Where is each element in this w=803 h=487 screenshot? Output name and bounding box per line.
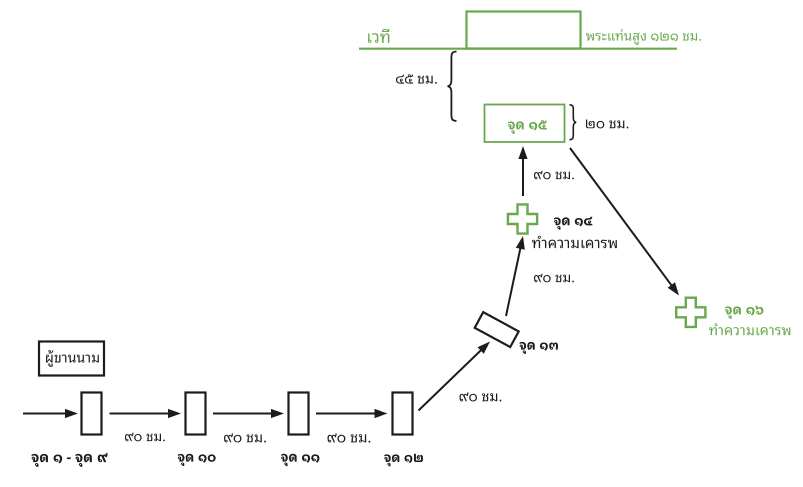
arrow box1 to box2: [110, 409, 182, 418]
caller name box: [39, 342, 104, 376]
stage line (weathee): [359, 48, 677, 50]
podium rectangle: [467, 12, 581, 49]
point box 2: [186, 393, 206, 435]
arrow plus14 to box15: [518, 146, 527, 196]
tilted rectangle jud 13: [475, 312, 519, 347]
label ๒๐ ชม.: [586, 119, 628, 128]
label พระแท่นสูง ๑๒๑ ชม.: [586, 29, 701, 45]
label 90 cm #4: [125, 433, 165, 442]
small right brace 20 cm: [570, 105, 577, 140]
label จุด ๑๔: [554, 217, 592, 230]
point box 1: [82, 393, 102, 435]
label 90 cm #2: [534, 274, 574, 283]
label 90 cm #3: [459, 392, 501, 401]
label 90 cm #5: [224, 433, 266, 442]
label จุด ๑๒: [384, 454, 423, 467]
box jud 15: [485, 105, 565, 143]
label tham khwam khaorop #1: [532, 236, 617, 248]
label จุด ๑๖: [725, 306, 763, 319]
label เวที: [368, 29, 389, 43]
label จุด ๑๐: [178, 454, 216, 466]
arrow box2 to box3: [213, 409, 284, 418]
big left brace 45 cm: [448, 52, 457, 122]
arrow box3 to box4: [316, 409, 388, 418]
label จุด ๑๓: [520, 342, 558, 354]
label tham khwam khaorop #2: [709, 323, 790, 335]
green cross jud 14: [508, 204, 537, 233]
point box 4: [393, 393, 413, 435]
arrow rect13 to plus14: [506, 236, 525, 316]
label ๔๕ ชม.: [396, 74, 437, 84]
label จุด ๑๕: [508, 120, 547, 134]
label จุด ๑๑: [281, 454, 319, 466]
arrow box12 to rect13: [419, 342, 491, 411]
label ผู้ขานนาม: [46, 350, 99, 367]
label 90 cm #6: [327, 433, 370, 442]
point box 3: [289, 393, 309, 435]
arrow into box 1: [23, 409, 78, 418]
label จุด ๑ - จุด ๙: [32, 453, 108, 467]
green cross jud 16: [676, 298, 705, 327]
arrow box15 to plus16: [570, 148, 679, 296]
label 90 cm #1: [534, 171, 574, 180]
